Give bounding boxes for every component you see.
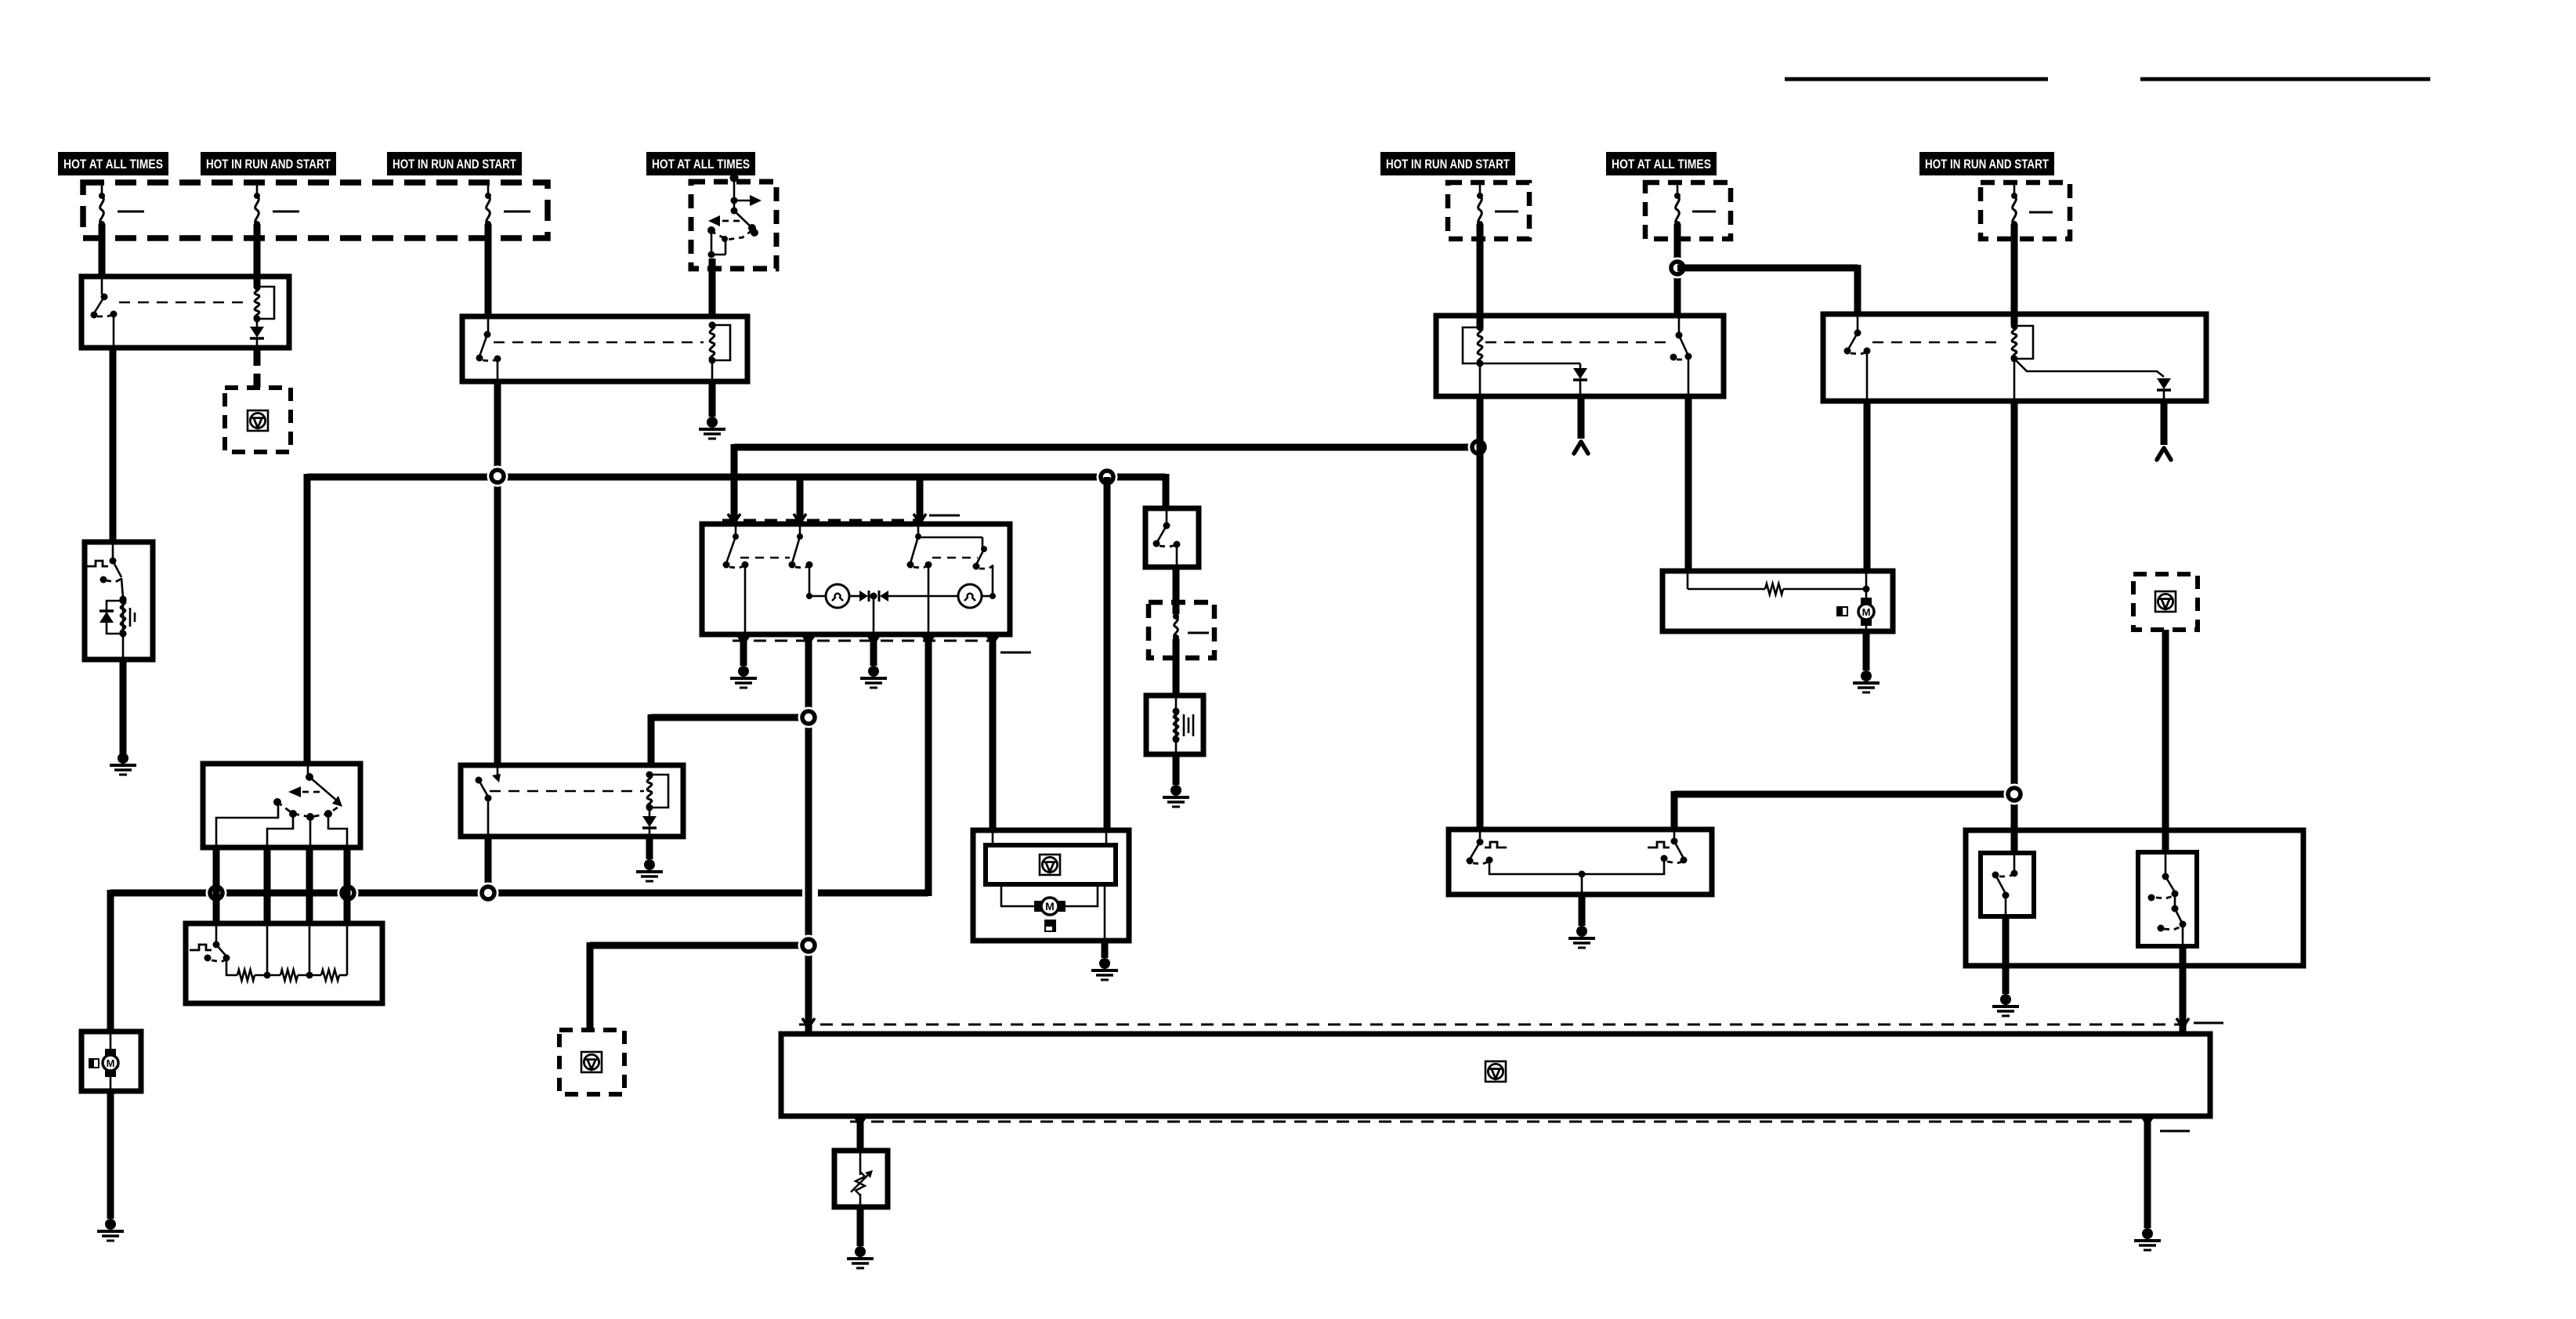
wiper switch contact wires: [216, 804, 278, 847]
wire sensor to ground: [857, 1207, 864, 1246]
wire K3 diode to ground: [646, 837, 653, 859]
wire fuse F4 to coil unit: [1173, 639, 1180, 696]
indicator bulb B1: [809, 595, 826, 598]
wire wiper sw pin2: [264, 847, 271, 923]
label dash G2: [2160, 1130, 2190, 1133]
relay K1 diode: [256, 319, 259, 327]
relay K5 diode branch: [2014, 359, 2164, 377]
relay K3 box: [461, 765, 683, 837]
relay K5 coil: [2012, 326, 2017, 359]
switch S1 box: [85, 542, 153, 659]
wire rear switch A to ground: [2003, 916, 2010, 994]
power label HOT IN RUN AND START (left 1): [201, 152, 336, 175]
relay K3 switch: [497, 765, 499, 779]
relay K3 link (dashed): [490, 790, 644, 793]
switch S1 pressure contact: [112, 542, 114, 559]
connector C3 (dashed): [2133, 574, 2198, 630]
ground G4 (lamp mid): [868, 666, 879, 677]
wire K5 common to pump module: [1864, 401, 1871, 571]
body wiring connector icon: [1485, 1061, 1506, 1082]
wiper switch rotor: [307, 764, 309, 775]
relay K5 link (dashed): [1872, 341, 2004, 344]
fuse block (dashed): [83, 182, 548, 238]
connector pin chevrons bus E: [728, 514, 740, 523]
wire bus F: [1674, 791, 2014, 798]
relay K1 link (dashed): [119, 302, 249, 304]
resistor R1: [237, 970, 255, 981]
lamp module box: [702, 524, 1010, 634]
svg-text:M: M: [1045, 900, 1055, 912]
fuse F3: [485, 193, 491, 199]
ground G12 (bottom right): [2142, 1228, 2153, 1239]
junction bus B / wiper feed: [1468, 437, 1489, 458]
junction F6 branch: [1667, 258, 1688, 279]
wire bus A drop to lamp pin 3: [917, 477, 924, 523]
wire lamp pin2 down to body module: [805, 634, 812, 1034]
wire ignition switch to relay K2 coil: [709, 258, 716, 316]
power label HOT IN RUN AND START (right 1): [1380, 152, 1515, 175]
lamp sw4: [981, 546, 987, 552]
wire washer feed down: [1104, 477, 1111, 830]
junction bus A / K2-K3 wire: [487, 466, 508, 487]
pressure switch right: [1673, 829, 1676, 840]
wire K4 common to pump module: [1685, 396, 1692, 571]
junction bus D pin1: [206, 883, 227, 904]
wire bus A: [307, 474, 1166, 481]
lamp sw3: [915, 533, 921, 540]
relay K1 coil: [255, 287, 259, 319]
wire bus D (left part): [110, 890, 802, 897]
wire lamp pin1g to ground: [740, 634, 747, 666]
wiper motor icon: [110, 1032, 112, 1055]
washer module connector sub-box: [992, 830, 994, 845]
wiper motor box: [81, 1032, 141, 1091]
ignition switch box (dashed): [691, 182, 776, 269]
wire K1 common to switch S1: [110, 348, 117, 542]
relay K4 switch: [1678, 316, 1681, 334]
fuse F6 (dashed box): [1645, 182, 1731, 239]
wire F6 branch to relay K5: [1677, 265, 1858, 272]
relay K3 diode: [649, 808, 651, 816]
rear switch B box: [2138, 852, 2197, 946]
ignition coil unit box: [1146, 696, 1203, 754]
ignition switch contacts: [730, 174, 739, 182]
title rule 1: [1785, 78, 2048, 81]
resistor R2: [280, 970, 298, 981]
pressure switch common bus: [1489, 858, 1664, 874]
body connector bus G2 (dashed): [850, 1121, 2136, 1123]
pump module resistor lead: [1687, 571, 1689, 589]
wire lamp pin5 down to washer motor: [990, 634, 997, 830]
wire D-junction to ground pin: [873, 596, 875, 634]
ground G13 (below sensor): [855, 1246, 866, 1257]
power label HOT AT ALL TIMES (ignition switch): [646, 152, 755, 175]
svg-text:HOT IN RUN AND START: HOT IN RUN AND START: [1386, 157, 1510, 172]
wire washer module to ground: [1102, 941, 1109, 958]
diode D2 (left): [870, 593, 877, 600]
wire K4 coil feed down to washer switch: [1477, 396, 1484, 829]
relay K1 box: [81, 276, 289, 348]
wire bus A drop to lamp pin 2: [797, 477, 804, 523]
ground G2 (below K2): [707, 417, 718, 428]
washer motor module box: [973, 830, 1129, 941]
label dash bus E2: [1000, 652, 1031, 654]
power label HOT AT ALL TIMES (left): [58, 152, 168, 175]
chevron G1 left: [802, 1018, 815, 1028]
relay K3 coil: [647, 775, 652, 808]
interval switch contacts: [1166, 508, 1168, 524]
connector C1 (dashed): [225, 388, 291, 452]
svg-text:HOT IN RUN AND START: HOT IN RUN AND START: [206, 157, 331, 172]
ground G11 (below rear switch A): [2000, 994, 2011, 1005]
wire coil unit to ground: [1173, 754, 1180, 785]
fuse F1: [99, 193, 105, 199]
pump module box: [1662, 571, 1893, 631]
resistor chain wire: [226, 958, 237, 975]
relay K2 switch: [487, 316, 490, 333]
svg-text:HOT AT ALL TIMES: HOT AT ALL TIMES: [63, 157, 163, 172]
body wiring box: [781, 1034, 2210, 1116]
diode D1 (right): [849, 595, 859, 598]
relay K5 switch: [1857, 314, 1859, 331]
wire wiper sw pin4: [344, 847, 351, 923]
junction bus A / washer feed: [1097, 467, 1118, 488]
fuse F7 (dashed box): [1981, 182, 2070, 239]
svg-text:M: M: [107, 1057, 115, 1069]
wire lamp pin4 down to bus D: [925, 634, 932, 896]
resistor pack box: [186, 923, 382, 1003]
wire pump module to ground: [1863, 631, 1870, 670]
pump module resistor: [1765, 584, 1783, 594]
interval switch box: [1145, 508, 1199, 567]
wire bus D (right part): [818, 890, 928, 897]
lamp sw1: [733, 533, 739, 540]
wire branch to connector C2: [590, 942, 809, 949]
ground G5 (below K3): [644, 859, 655, 870]
wire fuse F3 to relay K2: [485, 224, 492, 316]
sensor variable element: [859, 1151, 862, 1175]
fuse F2: [254, 193, 260, 199]
connector C2 (dashed): [559, 1030, 624, 1094]
wire K2 common down to relay K3: [494, 381, 501, 765]
svg-text:HOT IN RUN AND START: HOT IN RUN AND START: [393, 157, 516, 172]
wire bus C to relay K3 coil: [651, 714, 809, 721]
wire K2 coil to ground: [709, 381, 716, 417]
wire K5 diode pigtail: [2161, 401, 2168, 445]
junction bus F: [2004, 784, 2025, 805]
rear switch B: [2165, 852, 2167, 875]
sensor box: [834, 1151, 888, 1207]
wiper switch box: [203, 764, 360, 847]
junction bus C: [798, 707, 819, 728]
power label HOT IN RUN AND START (far right): [1919, 152, 2054, 175]
resistor R3: [321, 970, 339, 981]
wire K1 coil to connector C1 (broken): [254, 349, 261, 366]
wire K3 common to bus D: [485, 837, 492, 896]
relay K4 box: [1436, 316, 1724, 396]
terminal fork T2: [2157, 448, 2171, 460]
fuse F4 (dashed box): [1149, 602, 1214, 658]
svg-text:HOT AT ALL TIMES: HOT AT ALL TIMES: [652, 157, 750, 172]
wire M1 to ground: [107, 1091, 114, 1219]
rear switch A: [2013, 853, 2016, 872]
wire F7 to relay K5 coil: [2011, 224, 2018, 324]
relay K4 coil: [1478, 327, 1482, 363]
wire fuse F2 to relay K1 coil: [254, 224, 261, 287]
wire rear switch B down to body module: [2180, 946, 2187, 1034]
washer module right lead: [1104, 884, 1106, 941]
wire K5 coil down to rear switches: [2011, 401, 2018, 853]
washer pump motor: [1001, 884, 1037, 906]
fuse F5 (dashed box): [1448, 182, 1529, 239]
svg-text:HOT AT ALL TIMES: HOT AT ALL TIMES: [1612, 157, 1711, 172]
junction bus D pin4: [338, 883, 359, 904]
resistor chain taps: [264, 972, 271, 979]
resistor pack pressure switch: [215, 923, 218, 943]
junction bus D K3: [478, 883, 499, 904]
connector bus E2 (dashed) below lamp module: [733, 640, 995, 642]
wire wiper sw pin1: [213, 847, 220, 923]
ignition coil unit: [1175, 696, 1178, 754]
wire F5 to relay K4: [1477, 224, 1484, 327]
relay K1 switch: [101, 276, 103, 295]
ground G9 (below pump module): [1861, 670, 1872, 681]
svg-text:M: M: [1862, 606, 1871, 618]
relay K4 link (dashed): [1485, 341, 1667, 344]
wire lamp pin3g to ground: [870, 634, 877, 666]
wire body box right to ground: [2144, 1116, 2151, 1228]
body connector bus G1 (dashed): [799, 1024, 2187, 1026]
wire pressure module to ground: [1579, 894, 1586, 926]
connector pin chevrons bus E2: [737, 634, 750, 644]
wire bus B: [734, 444, 1478, 451]
ground G1 (below S1): [118, 753, 128, 764]
relay K5 box: [1823, 314, 2206, 401]
power label HOT IN RUN AND START (left 2): [387, 152, 522, 175]
relay K2 coil: [710, 325, 715, 360]
connector bus E (dashed): [722, 519, 920, 522]
pump module motor: [1865, 571, 1868, 589]
wire F6 down: [1674, 224, 1681, 316]
pressure switch left: [1479, 829, 1482, 840]
label dash G1: [2194, 1022, 2223, 1024]
rear switch A box: [1981, 853, 2034, 916]
title rule 2: [2140, 78, 2430, 81]
wire body box to sensor: [857, 1116, 864, 1151]
lamp sw2: [797, 533, 803, 540]
chevron G1 right: [2176, 1018, 2189, 1028]
terminal fork T1: [1574, 442, 1588, 454]
wire fuse F1 to relay K1: [99, 224, 106, 276]
ground G10 (below pressure module): [1576, 926, 1587, 937]
relay K2 box: [462, 316, 747, 381]
wire K4 diode pigtail: [1578, 396, 1585, 439]
chevron G2 right: [2141, 1115, 2154, 1125]
ground G6 (below M1): [105, 1219, 116, 1230]
label dash bus E: [929, 515, 960, 517]
rear switch module box: [1966, 830, 2303, 966]
wire interval switch to fuse F4: [1173, 567, 1180, 614]
junction branch C2: [798, 935, 819, 956]
wire S1 to ground: [120, 659, 127, 753]
solenoid L1 in S1: [121, 578, 123, 598]
pressure switch module box: [1449, 829, 1712, 894]
wire wiper sw pin3: [306, 847, 313, 923]
relay K4 diode branch: [1480, 363, 1580, 365]
indicator bulb B2: [958, 584, 982, 608]
lamp sw1-sw2 link (dashed): [740, 557, 790, 558]
power label HOT AT ALL TIMES (right): [1606, 152, 1717, 175]
wire C3 to rear switch: [2162, 630, 2169, 852]
relay K2 link (dashed): [494, 341, 704, 344]
ground G3 (lamp left): [738, 666, 749, 677]
chevron G2 left: [854, 1115, 867, 1125]
ground G7 (below washer module): [1099, 958, 1110, 969]
lamp sw3-sw4 link (dashed): [932, 557, 978, 558]
ground G8 (below coil unit): [1170, 785, 1181, 796]
svg-text:HOT IN RUN AND START: HOT IN RUN AND START: [1925, 157, 2049, 172]
